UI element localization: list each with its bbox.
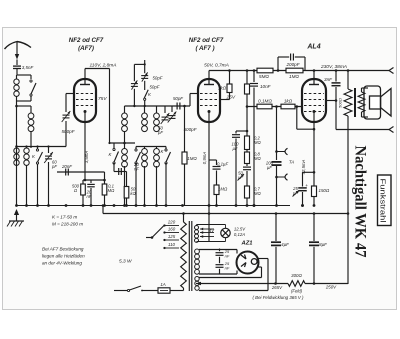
svg-text:500pF: 500pF [183, 127, 197, 132]
svg-text:Funkstrahl: Funkstrahl [379, 179, 388, 223]
svg-text:pF: pF [157, 130, 163, 135]
capacitor 50µF [246, 164, 248, 167]
capacitor 25nF b [216, 264, 224, 266]
rectifier tube AZ1 [237, 252, 259, 274]
svg-text:pF: pF [51, 164, 57, 169]
wire cathode network node [83, 179, 105, 181]
capacitor 8µF [313, 214, 315, 242]
speaker winding [358, 92, 365, 112]
wire grid chain AL4 [246, 71, 248, 85]
transformer core output [354, 88, 356, 117]
resistor 500Ω cathode [82, 180, 84, 184]
mains lead [114, 290, 128, 292]
transformer heater winding 4V [195, 226, 199, 230]
Funkstrahl logo box [378, 175, 392, 226]
fuse 1A [150, 290, 158, 292]
wire heater bus B [102, 206, 104, 214]
trimmer capacitor 500pF [63, 114, 70, 116]
wire V1 anode [84, 69, 86, 80]
svg-text:125: 125 [168, 234, 176, 239]
wire AZ1 filament bottom [257, 266, 262, 268]
svg-text:( Bei Feldwicklung 365 V ): ( Bei Feldwicklung 365 V ) [252, 295, 304, 300]
wire HV to AZ1 [199, 249, 220, 251]
wire coil D bottom to bus [130, 131, 132, 144]
svg-text:160: 160 [168, 227, 176, 232]
svg-text:250V: 250V [325, 285, 337, 290]
wire V1 cathode down [84, 122, 86, 180]
wire rectifier heater 1 [199, 277, 262, 279]
tube V2 NF2 od CF7 (AF7) [198, 79, 220, 122]
svg-text:220: 220 [167, 220, 176, 225]
trimmer box loop [134, 63, 144, 65]
svg-text:50pF: 50pF [152, 76, 162, 81]
inductor anode coil D [124, 106, 126, 113]
wire grid leak top [57, 171, 105, 173]
svg-text:TA: TA [289, 160, 294, 165]
svg-text:MΩ: MΩ [108, 188, 115, 193]
capacitor 3nF anode [335, 71, 337, 82]
wire filter2 mid top [110, 142, 136, 144]
wire AZ1 anode 2 [199, 273, 220, 275]
resistor 1MΩ grid leak [184, 106, 186, 152]
wire V1 grid [66, 93, 74, 95]
wire heater to lamp top [196, 225, 198, 226]
socket TA upper [275, 150, 278, 153]
wire grid line AL4 [247, 106, 302, 108]
resistor 0.1MΩ [104, 172, 106, 184]
capacitor 25µF cathode bypass [302, 172, 304, 186]
wire grid return to cathode [296, 107, 298, 130]
wire AL4 anode to rail [313, 71, 315, 80]
node antenna tap [15, 105, 18, 108]
svg-text:AL4: AL4 [306, 44, 320, 51]
capacitor 25nF a [219, 249, 221, 252]
wire anode rail 50V [209, 70, 389, 72]
transformer HV winding [195, 249, 200, 254]
svg-text:K = 17-50 m: K = 17-50 m [52, 215, 77, 220]
trimmer capacitor 50pF upper [141, 75, 148, 77]
wire heater feed down [208, 160, 210, 242]
svg-text:MΩ: MΩ [254, 191, 261, 196]
resistor 1kΩ AL4 grid stopper [281, 104, 295, 109]
svg-text:µF: µF [267, 165, 272, 170]
svg-text:0,12A: 0,12A [234, 232, 245, 237]
wire filter1 top [17, 146, 49, 148]
svg-text:50pF: 50pF [149, 85, 159, 90]
svg-text:230V, 38mA: 230V, 38mA [320, 64, 347, 70]
voltage selector arm [151, 236, 154, 239]
svg-text:MΩ: MΩ [254, 156, 261, 161]
switch K filter2 input [144, 81, 146, 90]
resistor 150Ω cathode [312, 186, 317, 197]
svg-text:1A: 1A [160, 282, 165, 287]
wire output line down [336, 129, 389, 131]
wire V2 screen via 1kΩ [220, 99, 230, 101]
wire AL4 cathode [313, 122, 315, 186]
wire to V2 grid [189, 94, 191, 107]
svg-text:Bei AF7 Bestückung: Bei AF7 Bestückung [42, 247, 84, 252]
wire B+ to speaker field [305, 283, 348, 285]
capacitor 20nF series [65, 169, 67, 176]
transformer core [188, 221, 190, 291]
capacitor 100µF screen bypass [236, 130, 247, 132]
svg-text:µF: µF [233, 146, 238, 151]
resistor 50kΩ [126, 172, 128, 187]
capacitor 10nF [253, 71, 255, 83]
svg-text:50V, 0,7mA: 50V, 0,7mA [204, 63, 229, 69]
svg-text:liegen alle Heizfäden: liegen alle Heizfäden [42, 254, 85, 259]
wire heater to lamp bottom [197, 241, 226, 243]
wire V2 cathode network [208, 122, 210, 160]
inductor antenna coupling coil [30, 106, 32, 113]
capacitor 0.1µF cathode [216, 160, 218, 165]
svg-text:75V: 75V [98, 96, 107, 102]
mains switch [127, 289, 129, 291]
svg-text:5,3 W: 5,3 W [119, 259, 132, 265]
capacitor 50pF series grid [176, 103, 178, 110]
wire AL4 screen tap [326, 100, 336, 102]
capacitor 20nF series 2 [114, 171, 127, 173]
speaker frame [364, 86, 381, 119]
wire chassis bus [17, 205, 291, 207]
resistor 0.1MΩ AL4 grid [257, 104, 272, 109]
resistor 1kΩ screen [227, 84, 232, 93]
speaker cone [381, 89, 392, 117]
svg-text:NF2 od CF7: NF2 od CF7 [189, 37, 224, 44]
svg-text:500pF: 500pF [61, 129, 75, 134]
svg-text:300Ω: 300Ω [291, 273, 302, 278]
switch K filter lower a [135, 147, 137, 150]
svg-text:200pF: 200pF [285, 62, 300, 67]
capacitor 200pF feedback [277, 57, 279, 71]
wire filter2 grid line [125, 105, 191, 107]
wire rectifier heater 2 [199, 290, 268, 292]
svg-text:0,9mA: 0,9mA [202, 152, 207, 165]
svg-text:110V, 2,8mA: 110V, 2,8mA [89, 63, 116, 69]
svg-text:0,1MΩ: 0,1MΩ [258, 99, 272, 104]
svg-text:1MΩ: 1MΩ [218, 187, 228, 192]
connector output right [389, 127, 394, 133]
voltage selector taps [163, 224, 165, 226]
svg-text:AZ1: AZ1 [241, 241, 253, 247]
resistor 500Ω output transformer primary [347, 71, 349, 90]
wire antenna down [16, 101, 18, 206]
svg-text:an der 4V-Wicklung: an der 4V-Wicklung [42, 261, 82, 266]
capacitor 200µF series [272, 161, 282, 163]
tube V3 AL4 [302, 79, 326, 122]
inductor L2b lower [156, 147, 158, 149]
resistor 0.8MΩ [246, 150, 248, 153]
svg-text:150Ω: 150Ω [319, 188, 330, 193]
inductor L2a lower [144, 147, 146, 149]
resistor 300Ω field winding [288, 281, 305, 287]
svg-text:0,1µF: 0,1µF [217, 162, 228, 167]
svg-text:(AF7): (AF7) [78, 45, 94, 52]
svg-text:5MΩ: 5MΩ [259, 74, 269, 79]
svg-text:110: 110 [168, 242, 176, 247]
inductor L1b [26, 147, 28, 149]
svg-text:265V: 265V [271, 285, 283, 290]
wire lower filter [136, 146, 166, 148]
svg-text:MΩ: MΩ [254, 140, 261, 145]
pilot lamp 12.5V 0.12A [221, 228, 230, 237]
trimmer capacitor 60pF [48, 147, 50, 154]
switch K filter lower b [165, 147, 167, 150]
resistor grid chain [245, 84, 250, 94]
wire coil bottom [16, 165, 18, 172]
connector top rail right [389, 68, 394, 74]
capacitor 3.5nF antenna series [13, 65, 21, 67]
svg-text:1kΩ: 1kΩ [284, 99, 293, 104]
svg-text:1MΩ: 1MΩ [187, 156, 197, 161]
trimmer capacitor 50pF a [164, 106, 166, 113]
resistor 0.7MΩ [245, 186, 250, 198]
svg-text:nF: nF [134, 166, 139, 171]
svg-text:nF: nF [87, 194, 92, 199]
capacitor 4µF [275, 214, 277, 242]
resistor 5MΩ [257, 68, 273, 73]
inductor L2a upper [144, 106, 146, 113]
transformer primary winding [183, 214, 185, 223]
svg-text:nF: nF [225, 265, 230, 270]
svg-text:(Feld): (Feld) [291, 289, 303, 294]
wire V2 anode to top rail [208, 71, 210, 80]
wire cathode bypass node [303, 171, 315, 173]
tube V1 NF2 od CF7 (AF7) [74, 79, 96, 122]
svg-text:Nachtigall WK 47: Nachtigall WK 47 [352, 146, 370, 258]
svg-text:50pF: 50pF [173, 96, 183, 101]
svg-text:8µF: 8µF [319, 242, 327, 247]
resistor 1MΩ cathode [214, 185, 219, 195]
switch K band 1 [37, 147, 39, 150]
inductor L1a [14, 148, 19, 153]
svg-text:3nF: 3nF [324, 77, 333, 82]
svg-text:1kΩ: 1kΩ [218, 86, 227, 91]
ground [14, 209, 19, 215]
trimmer capacitor 50pF lower [131, 83, 138, 85]
speaker magnet [370, 96, 381, 109]
TA pickup chain [276, 107, 278, 161]
wire speaker return [347, 116, 349, 214]
switch K filter2a [113, 143, 115, 149]
resistor 0.2MΩ [245, 136, 250, 150]
trimmer capacitor 50pF b [171, 106, 173, 112]
svg-text:+: + [305, 184, 308, 189]
resistor 1MΩ coupling [286, 68, 303, 73]
svg-text:M = 218-200 m: M = 218-200 m [52, 222, 83, 227]
svg-text:12,5V: 12,5V [234, 227, 246, 232]
antenna [5, 42, 18, 50]
socket TA lower [275, 176, 278, 179]
wave trap tank L + switch [17, 74, 32, 76]
svg-text:( AF7 ): ( AF7 ) [195, 45, 214, 52]
svg-text:10nF: 10nF [260, 84, 272, 89]
svg-text:4µF: 4µF [281, 242, 289, 247]
transformer rectifier heater winding [195, 277, 199, 281]
svg-text:20nF: 20nF [61, 164, 72, 169]
inductor coil D2 [122, 149, 128, 155]
svg-text:1MΩ: 1MΩ [289, 74, 299, 79]
inductor L2b upper [156, 106, 158, 113]
capacitor 20nF cathode [90, 180, 92, 183]
svg-text:500Ω: 500Ω [338, 98, 343, 108]
wire divider from rail [246, 107, 248, 137]
svg-text:NF2 od CF7: NF2 od CF7 [69, 37, 104, 44]
wire HV center tap B+ [196, 283, 288, 285]
svg-text:3,5nF: 3,5nF [22, 65, 34, 70]
wire AZ1 filament right [257, 258, 268, 260]
svg-text:nF: nF [225, 253, 230, 258]
